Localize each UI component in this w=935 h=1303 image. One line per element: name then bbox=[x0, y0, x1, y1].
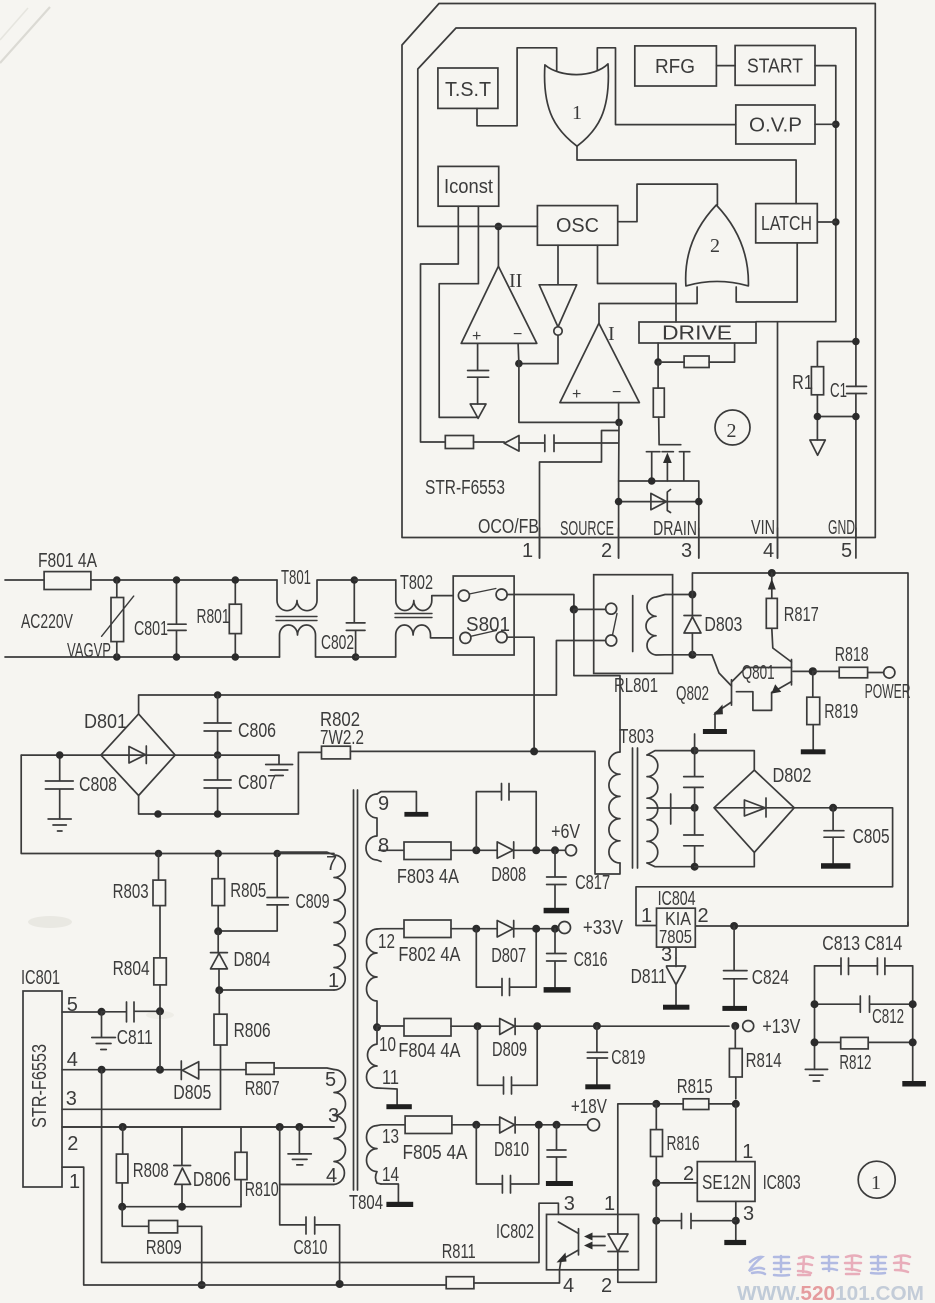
svg-text:C807: C807 bbox=[238, 772, 276, 794]
wire dot to loop resistor to DRIVE right-bottom bbox=[658, 343, 735, 362]
node dot D803 top bbox=[688, 591, 696, 599]
wire R808 node down to R809 bbox=[122, 1207, 149, 1227]
resistor R808 bbox=[121, 1127, 124, 1207]
node dot D808 cathode bbox=[532, 846, 540, 854]
svg-text:C808: C808 bbox=[79, 774, 117, 796]
ground bar Q802 emitter bbox=[703, 729, 727, 734]
svg-text:F801 4A: F801 4A bbox=[38, 550, 98, 572]
wire D803 node to Q802 base bbox=[692, 655, 731, 686]
capacitor secondary upper bbox=[684, 751, 704, 808]
wire D801 top vertex to AC rail bbox=[139, 695, 557, 714]
T804 winding pins 5-3-4 bbox=[334, 1070, 346, 1185]
snubber capacitor under D809 bbox=[478, 1026, 538, 1094]
svg-text:STR-F6553: STR-F6553 bbox=[425, 477, 505, 499]
wire S801 bottom-right down to R802 line bbox=[507, 637, 534, 751]
block T.S.T bbox=[438, 68, 498, 108]
ground bar network right bbox=[902, 1081, 926, 1087]
node dot R808 bottom bbox=[118, 1203, 126, 1211]
wire R809 right down to line2 bbox=[178, 1226, 202, 1285]
pin 9 lead to ground bbox=[377, 792, 416, 812]
circled 2 bbox=[715, 410, 750, 445]
MOSFET gate resistor network: wire DRIVE bottom bbox=[657, 343, 659, 362]
svg-text:R806: R806 bbox=[234, 1020, 271, 1042]
svg-text:2: 2 bbox=[601, 1275, 612, 1297]
node dot D806 bottom bbox=[178, 1203, 186, 1211]
node dot R805 top bbox=[214, 850, 222, 858]
svg-text:GND: GND bbox=[828, 517, 855, 539]
capacitor C807 bbox=[204, 755, 231, 814]
capacitor C824 bbox=[724, 926, 748, 1006]
node dot R814 top bbox=[731, 1022, 739, 1030]
svg-text:1: 1 bbox=[742, 1141, 753, 1163]
pin tick VIN bbox=[777, 528, 779, 558]
R817 feed arrow bbox=[771, 573, 773, 598]
relay core bar bbox=[632, 596, 634, 652]
svg-text:+18V: +18V bbox=[571, 1096, 608, 1118]
svg-text:C812: C812 bbox=[872, 1006, 904, 1028]
+13V terminal bbox=[743, 1021, 754, 1032]
svg-text:1: 1 bbox=[641, 905, 652, 927]
node dot C824 top bbox=[730, 922, 738, 930]
node dot C809 top bbox=[273, 850, 281, 858]
choke T802 bottom winding bbox=[356, 625, 460, 657]
wire R804 bottom to C811 node bbox=[159, 985, 161, 1011]
capacitor under II+ bbox=[468, 343, 489, 404]
wire IC804 pin2 output bbox=[695, 922, 908, 926]
node dot VIN rail bbox=[768, 569, 776, 577]
svg-text:13: 13 bbox=[382, 1126, 399, 1148]
resistor R809 bbox=[149, 1221, 178, 1233]
svg-text:T802: T802 bbox=[400, 572, 433, 594]
resistor R804 bbox=[154, 958, 167, 985]
choke T801 top winding bbox=[277, 580, 354, 611]
wire Iconst right output to II+ reference node bbox=[439, 206, 478, 417]
snubber capacitor under D810 bbox=[476, 1125, 539, 1193]
IC802 LED bbox=[608, 1214, 628, 1269]
relay blade bbox=[613, 614, 618, 636]
resistor R815 bbox=[683, 1099, 709, 1110]
wire dot down through resistor to gate bbox=[658, 362, 681, 445]
svg-text:R818: R818 bbox=[835, 644, 869, 666]
IC803 SE12N box bbox=[697, 1162, 755, 1202]
node dot C802 top bbox=[351, 576, 359, 584]
capacitor C1 on bus bbox=[847, 386, 867, 393]
pin 5 lead bbox=[274, 1068, 334, 1070]
node dot pin 10 bbox=[373, 1023, 381, 1031]
ground bar C824 bbox=[722, 1006, 747, 1011]
wire dot to relay contact bbox=[574, 608, 606, 610]
D802 inner diode bbox=[714, 798, 794, 817]
node dot channel bbox=[648, 477, 656, 485]
AC line top bbox=[5, 579, 277, 581]
svg-text:START: START bbox=[747, 56, 803, 78]
svg-text:C809: C809 bbox=[296, 891, 330, 913]
bridge rectifier D802 bbox=[714, 770, 794, 852]
node dot D807 anode bbox=[472, 925, 480, 933]
wire IC802 pin1 up to R815 node bbox=[618, 1104, 657, 1215]
svg-text:F802 4A: F802 4A bbox=[398, 944, 461, 966]
svg-text:IC801: IC801 bbox=[21, 967, 60, 989]
node dot center tap caps bbox=[691, 804, 699, 812]
R1 wire from GND bus bbox=[817, 342, 856, 367]
svg-text:3: 3 bbox=[661, 944, 672, 966]
svg-text:R803: R803 bbox=[113, 881, 149, 903]
svg-text:SE12N: SE12N bbox=[702, 1172, 751, 1194]
svg-text:R1: R1 bbox=[792, 372, 813, 394]
wire IC803 pin2 bbox=[656, 1182, 697, 1184]
ground bar +18V filter bbox=[546, 1181, 573, 1186]
open triangle ground under R1 bbox=[810, 440, 825, 455]
diode D809 bbox=[500, 1019, 515, 1035]
ground bar C819 bbox=[585, 1084, 610, 1089]
svg-text:2: 2 bbox=[683, 1163, 694, 1185]
node dot Q801 base/R818 bbox=[809, 667, 817, 675]
snubber capacitor under D807 bbox=[476, 929, 536, 996]
pin tick GND bbox=[855, 528, 857, 558]
svg-text:C802: C802 bbox=[321, 632, 354, 654]
capacitor +18V filter bbox=[547, 1125, 566, 1181]
wire R817 to Q801 collector bbox=[772, 628, 792, 662]
svg-text:1: 1 bbox=[69, 1171, 80, 1193]
svg-text:F804 4A: F804 4A bbox=[398, 1040, 461, 1062]
svg-text:D802: D802 bbox=[773, 765, 812, 787]
+33V rail bbox=[451, 928, 559, 930]
svg-text:R817: R817 bbox=[784, 604, 819, 626]
svg-text:4: 4 bbox=[763, 540, 774, 562]
lower branch with R812 bbox=[815, 1041, 913, 1043]
T804 secondary winding 13-14 bbox=[367, 1126, 382, 1184]
IC804 pin3 stub bbox=[675, 947, 677, 958]
inverter under OSC bbox=[539, 245, 577, 327]
svg-text:WWW.520101.COM: WWW.520101.COM bbox=[737, 1283, 924, 1303]
resistor R801 bbox=[234, 580, 236, 657]
svg-text:AC220V: AC220V bbox=[21, 611, 73, 633]
diode D808 bbox=[497, 842, 514, 858]
node dot D810 cathode bbox=[535, 1121, 543, 1129]
svg-text:SOURCE: SOURCE bbox=[560, 518, 614, 540]
coupling capacitor right of buffer bbox=[519, 435, 619, 452]
svg-text:−: − bbox=[612, 384, 621, 401]
svg-text:IC802: IC802 bbox=[496, 1221, 534, 1243]
node dot R1 bottom bbox=[814, 413, 822, 421]
wire RFG to START bbox=[716, 65, 735, 67]
network right vertical bbox=[912, 966, 914, 1081]
resistor R802 7W2.2 bbox=[322, 746, 351, 759]
svg-text:1: 1 bbox=[871, 1172, 881, 1194]
svg-text:D811: D811 bbox=[631, 966, 667, 988]
wire top rail to D802 bbox=[695, 751, 755, 771]
svg-text:D807: D807 bbox=[491, 945, 526, 967]
IC801 pin 2 wire joins pin3 line of T804 bbox=[62, 1126, 334, 1128]
node dot D803 bottom bbox=[688, 651, 696, 659]
earth ground mid rail bbox=[266, 755, 293, 775]
svg-text:T.S.T: T.S.T bbox=[445, 79, 491, 101]
MOSFET channel bars bbox=[646, 451, 689, 453]
capacitor C811 bbox=[102, 1002, 161, 1022]
AC line bottom bbox=[5, 656, 280, 658]
svg-text:R819: R819 bbox=[824, 701, 858, 723]
svg-text:1: 1 bbox=[604, 1193, 615, 1215]
wire inverter output to II- node bbox=[519, 335, 558, 363]
wire R815 row bbox=[656, 1103, 736, 1105]
node dot bottom rail left bbox=[154, 810, 162, 818]
svg-text:C1: C1 bbox=[830, 380, 847, 402]
node dot C805 bbox=[829, 804, 837, 812]
svg-text:+: + bbox=[572, 386, 581, 403]
svg-text:3: 3 bbox=[681, 540, 692, 562]
T803 secondary winding bbox=[647, 755, 658, 863]
svg-text:2: 2 bbox=[727, 420, 737, 442]
svg-text:I: I bbox=[608, 323, 615, 345]
T803 center tap with bold bar bbox=[647, 807, 695, 809]
wire C802 top to T802 bbox=[354, 579, 396, 581]
svg-text:OSC: OSC bbox=[556, 215, 599, 237]
pin 10 lead bbox=[377, 1025, 404, 1027]
svg-text:7: 7 bbox=[326, 853, 337, 875]
pin tick OCO/FB bbox=[539, 528, 541, 558]
capacitor C809 bbox=[218, 854, 288, 932]
IC802 phototransistor bbox=[578, 1229, 580, 1255]
node dot R815 left bbox=[652, 1100, 660, 1108]
bridge rectifier D801 bbox=[101, 714, 175, 796]
svg-text:1: 1 bbox=[572, 102, 582, 124]
R1 bottom junction wire bbox=[817, 395, 856, 440]
node dot C810/line2 bbox=[336, 1280, 344, 1288]
svg-text:−: − bbox=[513, 326, 522, 343]
choke T801 bottom winding bbox=[280, 625, 356, 657]
resistor R805 bbox=[217, 854, 219, 932]
node dot LATCH right bbox=[832, 218, 840, 226]
svg-text:RL801: RL801 bbox=[614, 675, 658, 697]
node dot bus top of R1C1 bbox=[852, 338, 860, 346]
S801 contact circles bbox=[458, 590, 469, 601]
node dot C810 branch bbox=[276, 1123, 284, 1131]
node dot C819 top bbox=[593, 1022, 601, 1030]
VIN internal wire pin 4 bbox=[777, 322, 779, 558]
line2 right to IC802 pin4 bbox=[474, 1270, 560, 1283]
circled 1 bbox=[858, 1161, 895, 1198]
resistor R819 bbox=[812, 671, 814, 749]
node dot II output line bbox=[495, 223, 503, 231]
pin 8 lead bbox=[379, 849, 404, 851]
ground bar C805 bbox=[821, 863, 850, 869]
node dot O.V.P right bbox=[832, 121, 840, 129]
capacitor C814 plates bbox=[877, 958, 885, 975]
T804 secondary winding 9-8 bbox=[366, 794, 381, 862]
wire II output up to OSC line bbox=[497, 226, 499, 266]
earth ground pin3 line bbox=[288, 1127, 311, 1165]
svg-text:Iconst: Iconst bbox=[444, 176, 493, 198]
body diode row bbox=[619, 501, 699, 503]
svg-text:4: 4 bbox=[67, 1049, 78, 1071]
relay RL801 box bbox=[594, 575, 673, 674]
svg-text:R814: R814 bbox=[746, 1050, 782, 1072]
node dot D809 anode bbox=[474, 1022, 482, 1030]
diode D810 bbox=[500, 1117, 515, 1133]
diode D811 bbox=[667, 958, 686, 1005]
feedback resistor (OCO/FB) bbox=[445, 436, 473, 449]
switch S801 box bbox=[453, 576, 514, 655]
resistor R1 bbox=[811, 367, 823, 395]
svg-text:5: 5 bbox=[67, 994, 78, 1016]
buffer amp (points left) bbox=[504, 436, 519, 452]
IC801 pin 4 wire bbox=[62, 1069, 181, 1071]
ground bar D811 bbox=[663, 1005, 689, 1010]
ground bar IC803 bbox=[724, 1240, 746, 1245]
svg-text:II: II bbox=[509, 270, 522, 292]
svg-text:DRIVE: DRIVE bbox=[662, 323, 732, 345]
wire bottom rail to D802 bbox=[695, 852, 755, 866]
node dot R809/line2 bbox=[198, 1281, 206, 1289]
node dot D804 bottom / pin1 line bbox=[215, 986, 223, 994]
capacitor C802 bbox=[346, 580, 365, 657]
svg-text:C805: C805 bbox=[853, 826, 890, 848]
+B rail from relay to right edge bbox=[692, 573, 908, 926]
svg-text:C801: C801 bbox=[134, 618, 168, 640]
wire secondary top to Q802 ground bbox=[694, 734, 696, 751]
svg-text:R804: R804 bbox=[113, 958, 150, 980]
diode D806 bbox=[174, 1127, 191, 1207]
ground bar R819 bbox=[801, 749, 826, 754]
resistor R811 on line2 bbox=[446, 1277, 474, 1289]
wire D802 right output bbox=[636, 808, 893, 926]
node dot C817 top bbox=[551, 846, 559, 854]
svg-text:C817: C817 bbox=[575, 872, 610, 894]
node dots R812 row bbox=[811, 1038, 819, 1046]
svg-text:D809: D809 bbox=[492, 1039, 527, 1061]
gate loop resistor (horizontal) bbox=[684, 356, 709, 368]
node dot secondary bottom bbox=[691, 863, 699, 871]
wire gate2 apex to OSC right bbox=[618, 184, 717, 222]
pin tick DRAIN bbox=[698, 528, 700, 558]
node dot under DRIVE bbox=[654, 358, 662, 366]
IC801 box bbox=[23, 991, 62, 1187]
node dot II- bbox=[515, 360, 523, 368]
svg-text:7W2.2: 7W2.2 bbox=[320, 727, 364, 749]
svg-text:C811: C811 bbox=[117, 1027, 153, 1049]
Q801 base wire to node bbox=[793, 670, 813, 672]
node dot R801 bottom bbox=[232, 653, 240, 661]
svg-text:+33V: +33V bbox=[583, 917, 624, 939]
IC STR-F6553 outer boundary bbox=[402, 4, 875, 538]
choke T801 core bbox=[276, 617, 317, 621]
node dot C811 left bbox=[98, 1008, 106, 1016]
relay coil bbox=[646, 595, 692, 656]
wire O.V.P right to bus bbox=[815, 123, 836, 125]
wire IC803 pin1 bbox=[735, 1104, 737, 1162]
capacitor C813 plates bbox=[841, 958, 849, 975]
svg-text:2: 2 bbox=[67, 1133, 78, 1155]
block LATCH bbox=[756, 204, 818, 243]
varistor VAGVP bbox=[116, 580, 118, 657]
svg-text:3: 3 bbox=[564, 1193, 575, 1215]
svg-text:C810: C810 bbox=[293, 1237, 327, 1259]
diode D803 bbox=[684, 595, 701, 655]
comparator I (triangle up) bbox=[560, 323, 640, 402]
capacitor C817 bbox=[547, 850, 567, 908]
svg-text:R807: R807 bbox=[245, 1078, 280, 1100]
wire LATCH right to bus bbox=[817, 221, 836, 223]
resistor R807 bbox=[246, 1063, 274, 1075]
svg-text:8: 8 bbox=[378, 835, 389, 857]
svg-text:DRAIN: DRAIN bbox=[653, 518, 697, 540]
earth ground C811 bbox=[92, 1012, 116, 1050]
ground bar pin 9 bbox=[404, 812, 428, 817]
pin 3 tap lead bbox=[62, 1126, 334, 1128]
svg-text:R811: R811 bbox=[442, 1241, 476, 1263]
node dot pin4 R804 branch bbox=[156, 1066, 164, 1074]
Q802 emitter with arrow bbox=[715, 702, 732, 729]
svg-text:R805: R805 bbox=[230, 880, 266, 902]
wire C810 bbox=[280, 1127, 340, 1284]
svg-text:C824: C824 bbox=[752, 967, 789, 989]
diode D805 bbox=[181, 1061, 246, 1080]
svg-text:R810: R810 bbox=[245, 1179, 279, 1201]
svg-text:T803: T803 bbox=[619, 726, 654, 748]
svg-text:F803 4A: F803 4A bbox=[397, 866, 460, 888]
POWER terminal circle bbox=[884, 667, 895, 678]
wire IC803 pin3 bbox=[735, 1201, 737, 1240]
node dot I-/source line bbox=[615, 419, 623, 427]
MOSFET substrate arrow (up) bbox=[666, 456, 668, 481]
svg-text:POWER: POWER bbox=[865, 681, 911, 703]
node dot C806 top bbox=[214, 691, 222, 699]
node dot C806/C807 mid bbox=[214, 751, 222, 759]
svg-text:D810: D810 bbox=[494, 1139, 529, 1161]
node dot C811 right / R804 bbox=[156, 1007, 164, 1015]
svg-text:O.V.P: O.V.P bbox=[749, 115, 802, 137]
resistor R817 bbox=[766, 598, 777, 628]
diode D807 bbox=[497, 921, 514, 938]
svg-text:D808: D808 bbox=[491, 864, 526, 886]
snubber capacitor over D808 bbox=[476, 784, 536, 851]
svg-text:11: 11 bbox=[382, 1067, 399, 1089]
block O.V.P bbox=[736, 105, 815, 144]
pin tick SOURCE bbox=[618, 528, 620, 558]
svg-text:14: 14 bbox=[382, 1164, 399, 1186]
node dot secondary top bbox=[691, 747, 699, 755]
watermark chinese bbox=[749, 1256, 910, 1276]
IC802 light arrows bbox=[589, 1237, 605, 1246]
svg-text:R809: R809 bbox=[146, 1237, 182, 1259]
node dot body diode left bbox=[615, 498, 623, 506]
wire LATCH bottom to gate2 right input bbox=[736, 243, 797, 302]
IC802 optocoupler box bbox=[547, 1214, 639, 1269]
svg-text:D801: D801 bbox=[84, 711, 127, 733]
T804 core bbox=[354, 790, 358, 1190]
ground bar C816 bbox=[544, 987, 571, 993]
node dot R801 top bbox=[232, 576, 240, 584]
svg-text:C813 C814: C813 C814 bbox=[822, 933, 902, 955]
node dot R805/C809 bbox=[214, 927, 222, 935]
svg-text:4: 4 bbox=[563, 1275, 574, 1297]
gate 2 (OR, output top apex) bbox=[686, 205, 749, 286]
pin 1 lead bbox=[219, 989, 334, 991]
choke T802 top winding bbox=[396, 580, 459, 611]
S801 blades bbox=[469, 589, 496, 637]
IC801 pin 3 wire bbox=[62, 1108, 221, 1110]
compensation capacitor bbox=[656, 1214, 736, 1229]
svg-text:12: 12 bbox=[378, 931, 395, 953]
fuse F802 bbox=[404, 920, 451, 938]
svg-text:KIA: KIA bbox=[665, 909, 691, 929]
resistor R816 bbox=[655, 1104, 657, 1183]
block OSC bbox=[537, 206, 617, 246]
wire R816 column down to IC802 pin2 return bbox=[618, 1183, 657, 1282]
wire II- down to source-sense line bbox=[518, 343, 619, 422]
Q801 emitter with arrow bbox=[736, 682, 791, 711]
resistor R803 bbox=[159, 854, 161, 958]
